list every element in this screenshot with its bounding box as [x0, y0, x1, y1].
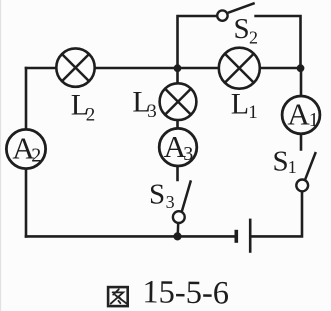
switch S2 [217, 3, 255, 21]
wire bottom left [25, 235, 235, 238]
wire left vertical [25, 67, 28, 238]
svg-text:1: 1 [309, 109, 319, 131]
ammeter A2 [6, 129, 45, 168]
svg-text:L: L [231, 88, 249, 121]
svg-text:3: 3 [166, 192, 175, 212]
wire middle branch (node through L3,A3 to S3 stub) [176, 68, 179, 181]
node junction at middle of main wire [174, 64, 182, 72]
switch S1 [296, 152, 315, 191]
svg-text:S: S [234, 13, 250, 45]
svg-text:2: 2 [31, 144, 41, 166]
wire top branch right (S2 to right node) [254, 16, 300, 69]
svg-text:S: S [149, 178, 165, 210]
svg-text:2: 2 [86, 105, 96, 126]
svg-text:3: 3 [183, 143, 193, 165]
svg-text:15-5-6: 15-5-6 [142, 274, 229, 311]
lamp L3 [160, 83, 197, 120]
wire bottom right + right vertical to S1 [250, 191, 302, 236]
svg-text:3: 3 [147, 101, 157, 122]
battery positive plate (long) [249, 219, 252, 253]
svg-text:2: 2 [249, 28, 258, 48]
node junction at bottom wire [173, 232, 181, 240]
lamp L1 [219, 48, 260, 89]
svg-text:A: A [287, 97, 310, 132]
switch S3 [173, 180, 191, 236]
lamp L2 [56, 48, 94, 86]
wire top branch left (node to S2) [178, 16, 218, 69]
svg-text:1: 1 [288, 157, 297, 177]
wire main horizontal [25, 67, 301, 70]
svg-text:S: S [273, 146, 289, 178]
node junction at right of main wire [297, 64, 305, 72]
caption character 图 [108, 287, 128, 306]
wire right branch (node through A1 to S1 stub) [300, 68, 303, 151]
svg-text:1: 1 [248, 102, 257, 123]
ammeter A3 [159, 128, 197, 166]
battery negative plate (short) [235, 230, 239, 243]
wire S3 pivot to bottom node [176, 223, 179, 237]
ammeter A1 [282, 96, 320, 134]
